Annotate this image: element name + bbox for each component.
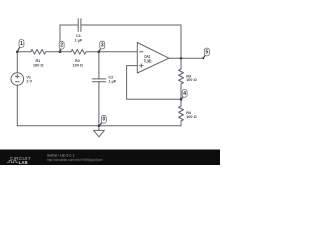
wire: main top row node1 to R1 [17, 51, 31, 53]
node 5 flag stem [203, 56, 205, 59]
wire: node4 to R4 [180, 99, 182, 106]
svg-text:2 V: 2 V [26, 79, 32, 83]
node B junction dot (node2) [59, 50, 62, 53]
node 5 flag box [204, 48, 209, 56]
junction dots [16, 50, 204, 127]
wire: R4 to bottom rail [180, 121, 182, 126]
wire: left rail bottom (V1 to ground rail) [16, 85, 18, 126]
node flags [17, 47, 205, 126]
op-amp U1 (OA1) body [137, 43, 169, 74]
node E junction dot (node4) [180, 98, 183, 101]
svg-text:1 μF: 1 μF [74, 38, 82, 42]
node 2 flag stem [60, 49, 61, 52]
node C junction dot (node3) [97, 50, 100, 53]
voltage source V1 [11, 73, 24, 86]
wire: node2 up to top wire [59, 25, 61, 52]
svg-text:0: 0 [103, 117, 106, 123]
svg-text:100 Ω: 100 Ω [33, 63, 43, 67]
svg-text:100 Ω: 100 Ω [186, 115, 196, 119]
CircuitLab logo wordmark [10, 156, 31, 165]
ground [98, 126, 100, 131]
wire: top wire right of C1 [81, 24, 181, 26]
wire: R2 to node3 [87, 51, 99, 53]
svg-text:100 Ω: 100 Ω [186, 78, 196, 82]
node 4 flag stem [181, 97, 183, 99]
svg-text:LAB: LAB [19, 160, 28, 165]
resistor R4 [179, 106, 184, 121]
wire: left rail top (node1 to V1) [16, 52, 18, 73]
node 4 flag box [182, 90, 187, 98]
svg-text:levitral / Lab 6 C.1: levitral / Lab 6 C.1 [47, 154, 75, 158]
svg-text:1 μF: 1 μF [108, 80, 116, 84]
wire: bottom rail [17, 125, 181, 127]
wire: output junction up to top wire [180, 25, 182, 58]
svg-text:100 Ω: 100 Ω [72, 63, 82, 67]
node F junction dot (ground) [98, 124, 101, 127]
svg-text:3: 3 [101, 43, 104, 49]
wire: output junction down to R3 [180, 58, 182, 69]
svg-text:C1: C1 [76, 34, 81, 38]
wire: R1 to node2 [46, 51, 60, 53]
wire: node3 to op-amp minus input [99, 51, 138, 53]
node G stub dot (node5) [202, 57, 204, 59]
svg-text:2: 2 [60, 43, 63, 49]
wire: op-amp output [169, 57, 181, 59]
wire: node2 to R2 [60, 51, 71, 53]
wire: top wire left of C1 [60, 24, 78, 26]
svg-text:TL081: TL081 [144, 59, 152, 64]
svg-text:http://circuitlab.com/c6vr7e59: http://circuitlab.com/c6vr7e598pq/clipar… [47, 158, 103, 162]
wire: op-amp plus input feedback [127, 66, 181, 100]
node 3 flag box [100, 41, 105, 49]
node 1 flag stem [17, 47, 20, 52]
node A junction dot (node1) [16, 50, 19, 53]
wire: output junction to node5 stub [181, 57, 203, 59]
resistor R2 [71, 49, 86, 54]
svg-text:5: 5 [206, 49, 209, 55]
node 3 flag stem [99, 49, 101, 52]
footer bar [0, 150, 220, 166]
component labels [26, 34, 196, 119]
capacitor C1 [78, 19, 81, 32]
resistor R3 [179, 69, 184, 84]
wire: R3 to node4 [180, 84, 182, 99]
svg-text:4: 4 [183, 91, 186, 97]
node D junction dot (output) [180, 57, 183, 60]
svg-text:1: 1 [20, 41, 23, 47]
node 2 flag box [59, 41, 64, 49]
resistor R1 [31, 49, 46, 54]
wire: node3 down to C2 [98, 52, 100, 79]
logo waveform squiggle [7, 161, 18, 163]
capacitor C2 [92, 79, 106, 82]
node 0 flag stem [99, 123, 102, 126]
wire: C2 to bottom rail [98, 82, 100, 126]
node 1 flag box [19, 40, 24, 48]
node 0 flag box [101, 115, 106, 123]
